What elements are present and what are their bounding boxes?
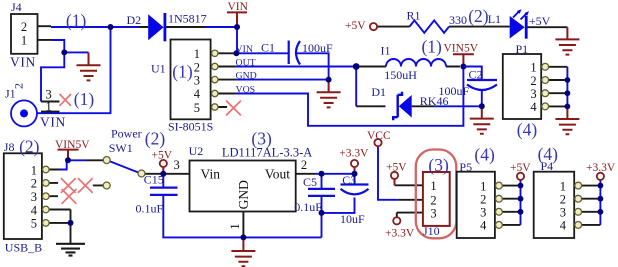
svg-text:C1: C1 bbox=[261, 41, 275, 55]
svg-text:1: 1 bbox=[228, 223, 242, 229]
svg-text:5: 5 bbox=[31, 217, 37, 231]
svg-text:150uH: 150uH bbox=[384, 68, 417, 82]
svg-text:2: 2 bbox=[21, 20, 27, 34]
svg-text:VIN: VIN bbox=[10, 55, 36, 70]
svg-text:3: 3 bbox=[530, 87, 536, 101]
svg-text:3: 3 bbox=[430, 206, 436, 220]
svg-text:J8: J8 bbox=[4, 140, 15, 154]
svg-text:C15: C15 bbox=[144, 172, 164, 186]
svg-text:2: 2 bbox=[194, 60, 200, 74]
svg-text:(2): (2) bbox=[145, 128, 166, 148]
svg-text:U1: U1 bbox=[151, 62, 166, 76]
svg-text:VOS: VOS bbox=[236, 84, 256, 95]
svg-text:Vin: Vin bbox=[201, 166, 221, 181]
svg-text:3: 3 bbox=[194, 74, 200, 88]
svg-text:1: 1 bbox=[430, 179, 436, 193]
svg-text:VIN5V: VIN5V bbox=[55, 139, 90, 151]
svg-text:+3.3V: +3.3V bbox=[339, 147, 369, 159]
svg-text:(3): (3) bbox=[428, 155, 449, 175]
svg-text:1: 1 bbox=[31, 163, 37, 177]
svg-text:C3: C3 bbox=[342, 173, 356, 187]
svg-text:R1: R1 bbox=[407, 8, 421, 22]
svg-text:+3.3V: +3.3V bbox=[586, 162, 616, 174]
svg-text:330: 330 bbox=[449, 13, 467, 27]
svg-text:4: 4 bbox=[31, 203, 38, 217]
svg-text:+5V: +5V bbox=[345, 20, 366, 32]
svg-text:4: 4 bbox=[560, 219, 567, 233]
svg-text:(4): (4) bbox=[474, 144, 495, 164]
svg-text:3: 3 bbox=[31, 190, 37, 204]
svg-text:P1: P1 bbox=[516, 42, 529, 56]
svg-text:USB_B: USB_B bbox=[5, 241, 42, 255]
svg-text:VIN: VIN bbox=[228, 1, 249, 13]
svg-text:(1): (1) bbox=[66, 10, 87, 30]
svg-text:VIN: VIN bbox=[40, 115, 66, 130]
svg-text:0.1uF: 0.1uF bbox=[136, 201, 164, 215]
svg-text:(3): (3) bbox=[251, 128, 272, 148]
svg-text:10uF: 10uF bbox=[340, 212, 365, 226]
svg-text:1: 1 bbox=[560, 179, 566, 193]
svg-text:C2: C2 bbox=[469, 68, 483, 82]
svg-text:2: 2 bbox=[480, 193, 486, 207]
svg-text:2: 2 bbox=[31, 177, 37, 191]
svg-text:P5: P5 bbox=[459, 160, 472, 174]
svg-text:1: 1 bbox=[45, 100, 51, 114]
svg-text:1: 1 bbox=[21, 34, 27, 48]
svg-text:(2): (2) bbox=[468, 6, 489, 26]
svg-text:I1: I1 bbox=[381, 44, 391, 58]
svg-text:+5V: +5V bbox=[152, 149, 173, 161]
svg-text:100uF: 100uF bbox=[302, 41, 333, 55]
svg-text:+5V: +5V bbox=[529, 14, 551, 28]
svg-text:4: 4 bbox=[480, 219, 487, 233]
svg-text:0.1uF: 0.1uF bbox=[294, 200, 322, 214]
svg-text:(1): (1) bbox=[74, 89, 95, 109]
svg-text:D1: D1 bbox=[371, 85, 386, 99]
svg-text:5: 5 bbox=[194, 101, 200, 115]
svg-text:VIN: VIN bbox=[236, 44, 253, 55]
svg-text:Power: Power bbox=[111, 127, 142, 141]
svg-text:VCC: VCC bbox=[367, 130, 391, 142]
svg-text:SW1: SW1 bbox=[109, 141, 133, 155]
svg-text:(4): (4) bbox=[517, 119, 538, 139]
svg-text:3: 3 bbox=[173, 158, 179, 172]
svg-text:OUT: OUT bbox=[236, 57, 256, 68]
svg-text:1: 1 bbox=[194, 47, 200, 61]
svg-text:1: 1 bbox=[530, 61, 536, 75]
svg-text:GND: GND bbox=[236, 71, 257, 82]
svg-text:(1): (1) bbox=[172, 62, 193, 82]
svg-text:+3.3V: +3.3V bbox=[385, 227, 415, 239]
svg-text:D2: D2 bbox=[127, 13, 142, 27]
svg-text:4: 4 bbox=[194, 87, 201, 101]
svg-text:GND: GND bbox=[236, 180, 251, 209]
svg-text:(1): (1) bbox=[421, 36, 442, 56]
svg-text:2: 2 bbox=[530, 74, 536, 88]
svg-text:1: 1 bbox=[480, 179, 486, 193]
svg-text:L1: L1 bbox=[488, 12, 501, 26]
svg-text:+5V: +5V bbox=[510, 162, 531, 174]
svg-text:2: 2 bbox=[560, 193, 566, 207]
svg-text:2: 2 bbox=[11, 83, 25, 89]
svg-text:2: 2 bbox=[301, 158, 307, 172]
svg-text:3: 3 bbox=[560, 206, 566, 220]
svg-text:RK46: RK46 bbox=[420, 94, 449, 108]
svg-text:1N5817: 1N5817 bbox=[168, 12, 207, 26]
svg-text:VIN5V: VIN5V bbox=[444, 42, 479, 54]
svg-text:4: 4 bbox=[530, 100, 537, 114]
svg-text:+5V: +5V bbox=[386, 162, 407, 174]
svg-text:J4: J4 bbox=[11, 0, 22, 14]
svg-text:SI-8051S: SI-8051S bbox=[168, 120, 213, 134]
svg-text:(4): (4) bbox=[538, 144, 559, 164]
svg-text:3: 3 bbox=[480, 206, 486, 220]
svg-text:Vout: Vout bbox=[265, 166, 291, 181]
svg-text:(2): (2) bbox=[19, 137, 40, 157]
svg-text:C5: C5 bbox=[303, 175, 317, 189]
svg-text:J10: J10 bbox=[423, 224, 440, 238]
svg-text:U2: U2 bbox=[189, 144, 204, 158]
